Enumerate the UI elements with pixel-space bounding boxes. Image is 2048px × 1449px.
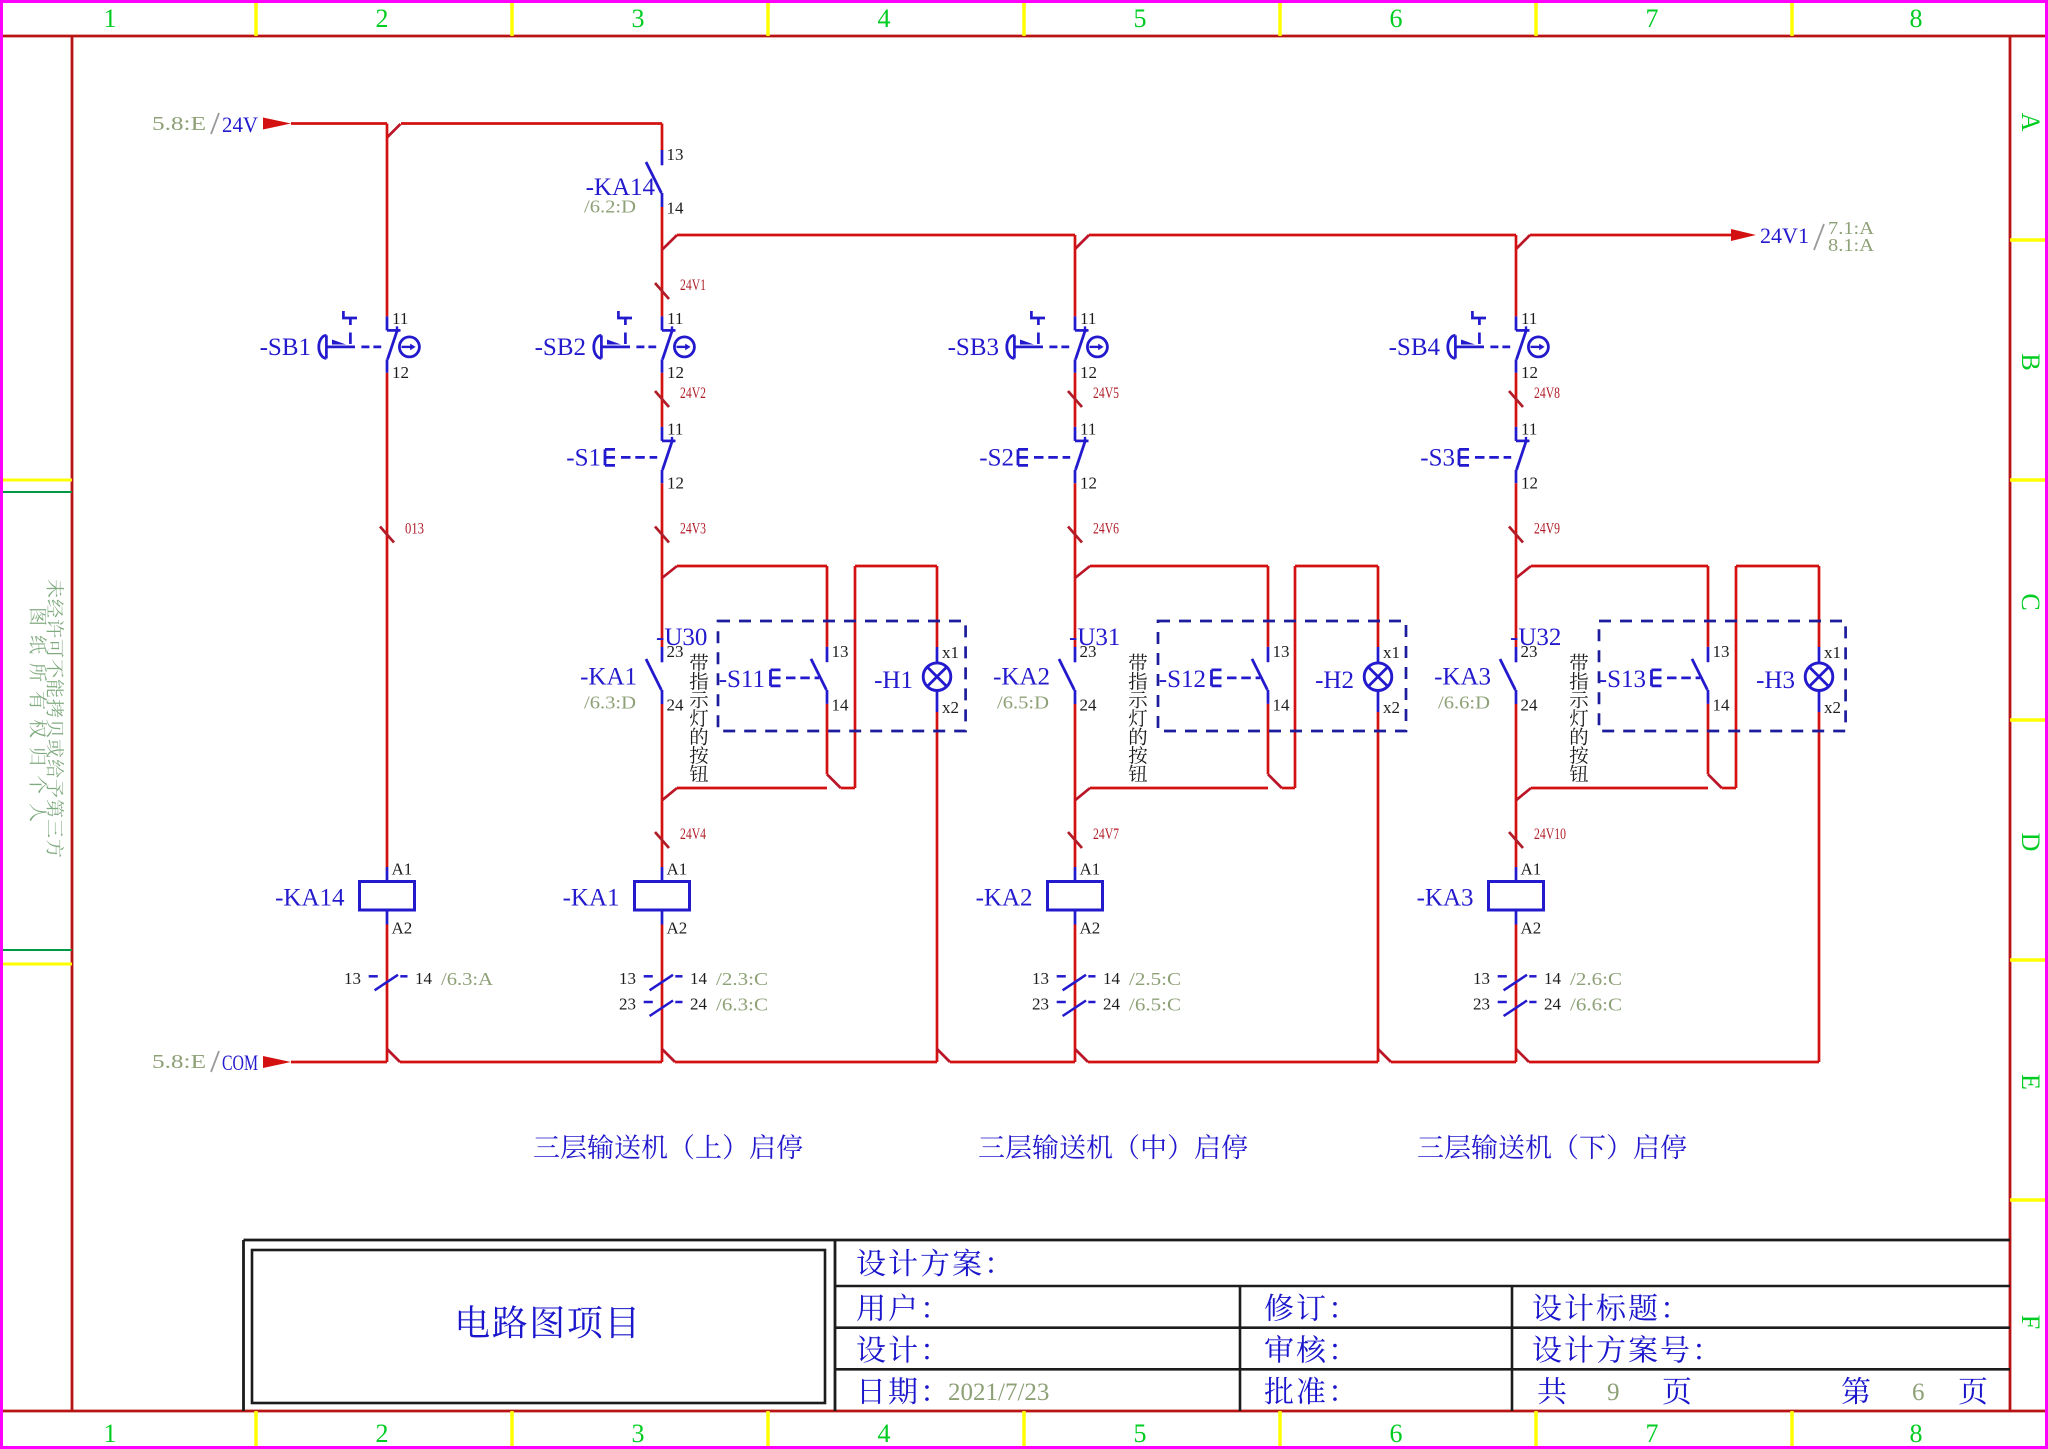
svg-text:/6.2:D: /6.2:D <box>584 197 636 217</box>
svg-text:1: 1 <box>104 4 117 33</box>
svg-text:8: 8 <box>1910 4 1923 33</box>
svg-text:-S1: -S1 <box>566 444 601 471</box>
wire KA3 branch vertical (col 6/7) <box>1515 235 1518 1062</box>
label KA14 contact + cross-ref /6.2:D <box>584 174 655 217</box>
svg-text:-SB3: -SB3 <box>948 334 999 361</box>
svg-text:A: A <box>2016 113 2045 132</box>
switch S3 NC contact (E actuator), pins 11/12 <box>1420 419 1538 492</box>
svg-text:23: 23 <box>619 995 636 1014</box>
wire lamp H3 leg down to COM <box>1818 712 1821 1062</box>
svg-text:D: D <box>2016 833 2045 852</box>
svg-text:-KA1: -KA1 <box>580 664 637 691</box>
svg-text:-S12: -S12 <box>1159 666 1206 693</box>
svg-text:11: 11 <box>1521 419 1537 438</box>
svg-text:13: 13 <box>832 642 849 661</box>
svg-text:3: 3 <box>632 1419 645 1448</box>
svg-text:23: 23 <box>1032 995 1049 1014</box>
svg-text:A1: A1 <box>667 860 688 879</box>
switch S1 NC contact (E actuator), pins 11/12 <box>566 419 684 492</box>
margin note (green rotated text) <box>29 580 64 858</box>
wire branch split to S12 leg (top) <box>1075 566 1268 647</box>
svg-text:5: 5 <box>1134 1419 1147 1448</box>
svg-text:/2.3:C: /2.3:C <box>716 969 768 989</box>
wire KA14/SB1 branch vertical (col 2) <box>386 124 389 1063</box>
svg-text:A1: A1 <box>1521 860 1542 879</box>
node 24V1 arrow with cross-refs 7.1:A 8.1:A <box>1731 218 1874 255</box>
net stub 24V3 <box>655 521 706 543</box>
relay coil KA14, pins A1/A2 <box>275 860 414 938</box>
junction H2 leg to COM rail <box>1378 1049 1391 1062</box>
svg-text:13: 13 <box>667 145 684 164</box>
net stub 013 on SB1 branch <box>380 521 424 543</box>
svg-text:14: 14 <box>832 695 850 714</box>
svg-text:A2: A2 <box>1080 919 1101 938</box>
svg-text:A1: A1 <box>1080 860 1101 879</box>
lamp H3, pins x1/x2 <box>1756 643 1841 717</box>
svg-text:24V6: 24V6 <box>1093 521 1119 538</box>
svg-text:7: 7 <box>1646 1419 1659 1448</box>
svg-text:12: 12 <box>667 473 684 492</box>
relay contact KA3 NO, pins 23/24 <box>1500 642 1538 715</box>
net stub 24V6 <box>1068 521 1119 543</box>
svg-text:A2: A2 <box>1521 919 1542 938</box>
switch S11 NO contact, pins 13/14 <box>811 642 849 715</box>
svg-text:12: 12 <box>1521 473 1538 492</box>
svg-text:4: 4 <box>878 4 891 33</box>
svg-text:/2.6:C: /2.6:C <box>1570 969 1622 989</box>
svg-text:11: 11 <box>667 309 683 328</box>
svg-text:/6.5:D: /6.5:D <box>997 693 1049 713</box>
wire KA1 branch vertical (col 3) <box>661 124 664 1063</box>
svg-text:24V4: 24V4 <box>680 826 706 843</box>
svg-text:-S2: -S2 <box>979 444 1014 471</box>
annotation 带指示灯的按钮 <box>1129 654 1147 782</box>
svg-text:6: 6 <box>1390 4 1403 33</box>
title block frame <box>244 1240 2011 1411</box>
svg-text:2021/7/23: 2021/7/23 <box>948 1379 1049 1406</box>
svg-text:-SB1: -SB1 <box>260 334 311 361</box>
svg-text:23: 23 <box>667 642 684 661</box>
junction KA1 branch to COM rail <box>662 1049 675 1062</box>
svg-text:3: 3 <box>632 4 645 33</box>
junction 24V1 rail at KA2 branch <box>1075 235 1089 249</box>
actuator+label -S11 <box>719 666 819 693</box>
svg-text:-H3: -H3 <box>1756 667 1795 694</box>
actuator+label -S13 <box>1599 666 1700 693</box>
svg-text:E: E <box>2016 1074 2045 1090</box>
svg-text:23: 23 <box>1521 642 1538 661</box>
svg-text:13: 13 <box>1473 969 1490 988</box>
svg-text:/6.3:A: /6.3:A <box>441 969 493 989</box>
annotation 带指示灯的按钮 <box>1570 654 1588 782</box>
svg-text:24V1: 24V1 <box>680 277 706 294</box>
svg-text:11: 11 <box>1080 419 1096 438</box>
lamp H2, pins x1/x2 <box>1315 643 1400 717</box>
net stub 24V8 <box>1509 385 1560 407</box>
svg-text:x2: x2 <box>1383 698 1400 717</box>
svg-text:24: 24 <box>1521 696 1539 715</box>
svg-text:24V: 24V <box>222 112 258 137</box>
svg-text:/6.3:C: /6.3:C <box>716 995 768 1015</box>
svg-text:24V3: 24V3 <box>680 521 706 538</box>
wire lamp H1 leg down to COM <box>936 712 939 1062</box>
svg-text:14: 14 <box>1544 969 1562 988</box>
wire KA2 branch vertical (col 5) <box>1074 235 1077 1062</box>
unit box U32 (dashed) with label <box>1510 621 1846 731</box>
junction KA3 branch to COM rail <box>1516 1049 1529 1062</box>
svg-text:7: 7 <box>1646 4 1659 33</box>
svg-text:24: 24 <box>667 696 685 715</box>
svg-text:x1: x1 <box>1824 643 1841 662</box>
svg-text:11: 11 <box>1080 309 1096 328</box>
annotation 带指示灯的按钮 <box>690 654 708 782</box>
svg-text:8.1:A: 8.1:A <box>1828 235 1874 255</box>
relay coil KA3, pins A1/A2 <box>1417 860 1544 938</box>
relay coil KA2, pins A1/A2 <box>976 860 1103 938</box>
svg-text:13: 13 <box>344 969 361 988</box>
svg-text:/6.5:C: /6.5:C <box>1129 995 1181 1015</box>
svg-text:14: 14 <box>1273 695 1291 714</box>
svg-text:5.8:E: 5.8:E <box>152 113 206 135</box>
svg-text:/6.6:D: /6.6:D <box>1438 693 1490 713</box>
svg-text:12: 12 <box>1080 363 1097 382</box>
wire S13 return to branch and to lamp leg <box>1516 566 1819 800</box>
unit box U31 (dashed) with label <box>1069 621 1406 731</box>
label KA2 contact + cross-ref /6.5:D <box>993 664 1050 713</box>
svg-text:23: 23 <box>1473 995 1490 1014</box>
actuator+label -S12 <box>1159 666 1260 693</box>
svg-text:C: C <box>2016 593 2045 610</box>
svg-text:24: 24 <box>1103 995 1121 1014</box>
KA14 contact mirror row 13/14 /6.3:A <box>344 969 493 991</box>
switch S12 NO contact, pins 13/14 <box>1252 642 1290 715</box>
title block texts <box>459 1249 1987 1406</box>
wire lamp H2 leg down to COM <box>1377 712 1380 1062</box>
wire S12 return to branch and to lamp leg <box>1075 566 1378 800</box>
svg-text:24V7: 24V7 <box>1093 826 1119 843</box>
switch S2 NC contact (E actuator), pins 11/12 <box>979 419 1097 492</box>
net stub 24V4 <box>655 826 706 848</box>
wire 24V feed rail (top) <box>291 122 662 125</box>
net stub 24V7 <box>1068 826 1119 848</box>
svg-text:-SB2: -SB2 <box>535 334 586 361</box>
svg-text:4: 4 <box>878 1419 891 1448</box>
svg-text:12: 12 <box>667 363 684 382</box>
svg-text:11: 11 <box>667 419 683 438</box>
svg-text:x2: x2 <box>1824 698 1841 717</box>
svg-text:-H2: -H2 <box>1315 667 1354 694</box>
svg-text:-KA2: -KA2 <box>976 885 1033 912</box>
svg-text:12: 12 <box>1080 473 1097 492</box>
wire branch split to S13 leg (top) <box>1516 566 1708 647</box>
svg-text:14: 14 <box>1103 969 1121 988</box>
junction 24V1 rail at KA3 branch <box>1516 235 1530 249</box>
wire S11 return to branch and to lamp leg <box>662 566 937 800</box>
junction H1 leg to COM rail <box>937 1049 950 1062</box>
svg-text:2: 2 <box>376 1419 389 1448</box>
wire 24V1 rail <box>677 234 1731 237</box>
svg-text:A2: A2 <box>392 919 413 938</box>
svg-text:14: 14 <box>415 969 433 988</box>
svg-text:11: 11 <box>1521 309 1537 328</box>
svg-text:B: B <box>2016 353 2045 370</box>
svg-text:24V5: 24V5 <box>1093 385 1119 402</box>
pushbutton SB2 NC contact, pins 11/12 <box>535 309 695 382</box>
svg-text:13: 13 <box>1032 969 1049 988</box>
svg-text:6: 6 <box>1912 1379 1925 1406</box>
junction KA2 branch to COM rail <box>1075 1049 1088 1062</box>
svg-text:2: 2 <box>376 4 389 33</box>
svg-text:A2: A2 <box>667 919 688 938</box>
svg-text:8: 8 <box>1910 1419 1923 1448</box>
svg-text:/6.6:C: /6.6:C <box>1570 995 1622 1015</box>
svg-text:24: 24 <box>1544 995 1562 1014</box>
svg-text:-KA1: -KA1 <box>563 885 620 912</box>
svg-text:/6.3:D: /6.3:D <box>584 693 636 713</box>
svg-text:24V2: 24V2 <box>680 385 706 402</box>
svg-text:013: 013 <box>405 521 424 538</box>
wire branch split to S11 leg (top) <box>662 566 827 647</box>
svg-text:-KA3: -KA3 <box>1417 885 1474 912</box>
svg-text:24V1: 24V1 <box>1760 223 1809 248</box>
svg-text:13: 13 <box>1713 642 1730 661</box>
unit box U30 (dashed) with label <box>656 621 966 731</box>
net stub 24V1 <box>655 277 706 299</box>
svg-text:x1: x1 <box>942 643 959 662</box>
pushbutton SB1 NC contact, pins 11/12 <box>260 309 420 382</box>
svg-text:24V9: 24V9 <box>1534 521 1560 538</box>
label KA1 contact + cross-ref /6.3:D <box>580 664 637 713</box>
net stub 24V10 <box>1509 826 1566 848</box>
pushbutton SB3 NC contact, pins 11/12 <box>948 309 1108 382</box>
svg-text:-S3: -S3 <box>1420 444 1455 471</box>
svg-text:11: 11 <box>392 309 408 328</box>
svg-text:14: 14 <box>1713 695 1731 714</box>
junction KA14 branch to COM rail <box>387 1049 400 1062</box>
svg-text:14: 14 <box>667 199 685 218</box>
lamp H1, pins x1/x2 <box>874 643 959 717</box>
node COM source arrow (5.8:E / COM) <box>152 1050 291 1075</box>
svg-text:14: 14 <box>690 969 708 988</box>
svg-text:12: 12 <box>1521 363 1538 382</box>
svg-text:-KA3: -KA3 <box>1434 664 1491 691</box>
net stub 24V9 <box>1509 521 1560 543</box>
KA3 contact mirror rows <box>1473 969 1622 1016</box>
svg-text:x1: x1 <box>1383 643 1400 662</box>
wire COM rail (bottom) <box>291 1061 1819 1064</box>
junction T-node on 24V rail at SB1 branch <box>387 124 401 138</box>
svg-text:9: 9 <box>1607 1379 1620 1406</box>
svg-text:5: 5 <box>1134 4 1147 33</box>
svg-text:COM: COM <box>222 1050 258 1075</box>
label KA3 contact + cross-ref /6.6:D <box>1434 664 1491 713</box>
svg-text:24V10: 24V10 <box>1534 826 1566 843</box>
svg-text:23: 23 <box>1080 642 1097 661</box>
KA1 contact mirror rows <box>619 969 768 1016</box>
relay coil KA1, pins A1/A2 <box>563 860 690 938</box>
net stub 24V2 <box>655 385 706 407</box>
svg-text:24: 24 <box>1080 696 1098 715</box>
svg-text:-SB4: -SB4 <box>1389 334 1441 361</box>
junction 24V1 rail start at KA1 branch <box>662 235 677 250</box>
svg-text:-S13: -S13 <box>1599 666 1646 693</box>
svg-text:6: 6 <box>1390 1419 1403 1448</box>
pushbutton SB4 NC contact, pins 11/12 <box>1389 309 1549 382</box>
svg-text:5.8:E: 5.8:E <box>152 1051 206 1073</box>
svg-text:24: 24 <box>690 995 708 1014</box>
relay contact KA14 NO, pins 13/14 <box>646 145 684 218</box>
caption 三层输送机（下）启停 <box>1418 1134 1686 1159</box>
svg-text:-H1: -H1 <box>874 667 913 694</box>
node 24V source arrow (5.8:E / 24V) <box>152 112 291 137</box>
relay contact KA2 NO, pins 23/24 <box>1059 642 1097 715</box>
caption 三层输送机（上）启停 <box>534 1134 802 1159</box>
svg-text:-KA14: -KA14 <box>275 885 345 912</box>
svg-text:F: F <box>2016 1315 2045 1329</box>
svg-text:A1: A1 <box>392 860 413 879</box>
KA2 contact mirror rows <box>1032 969 1181 1016</box>
svg-text:1: 1 <box>104 1419 117 1448</box>
relay contact KA1 NO, pins 23/24 <box>646 642 684 715</box>
caption 三层输送机（中）启停 <box>979 1134 1247 1159</box>
net stub 24V5 <box>1068 385 1119 407</box>
svg-text:24V8: 24V8 <box>1534 385 1560 402</box>
svg-text:-KA2: -KA2 <box>993 664 1050 691</box>
svg-text:x2: x2 <box>942 698 959 717</box>
svg-text:13: 13 <box>619 969 636 988</box>
svg-text:/2.5:C: /2.5:C <box>1129 969 1181 989</box>
svg-text:-S11: -S11 <box>719 666 765 693</box>
svg-text:13: 13 <box>1273 642 1290 661</box>
svg-text:12: 12 <box>392 363 409 382</box>
switch S13 NO contact, pins 13/14 <box>1692 642 1730 715</box>
